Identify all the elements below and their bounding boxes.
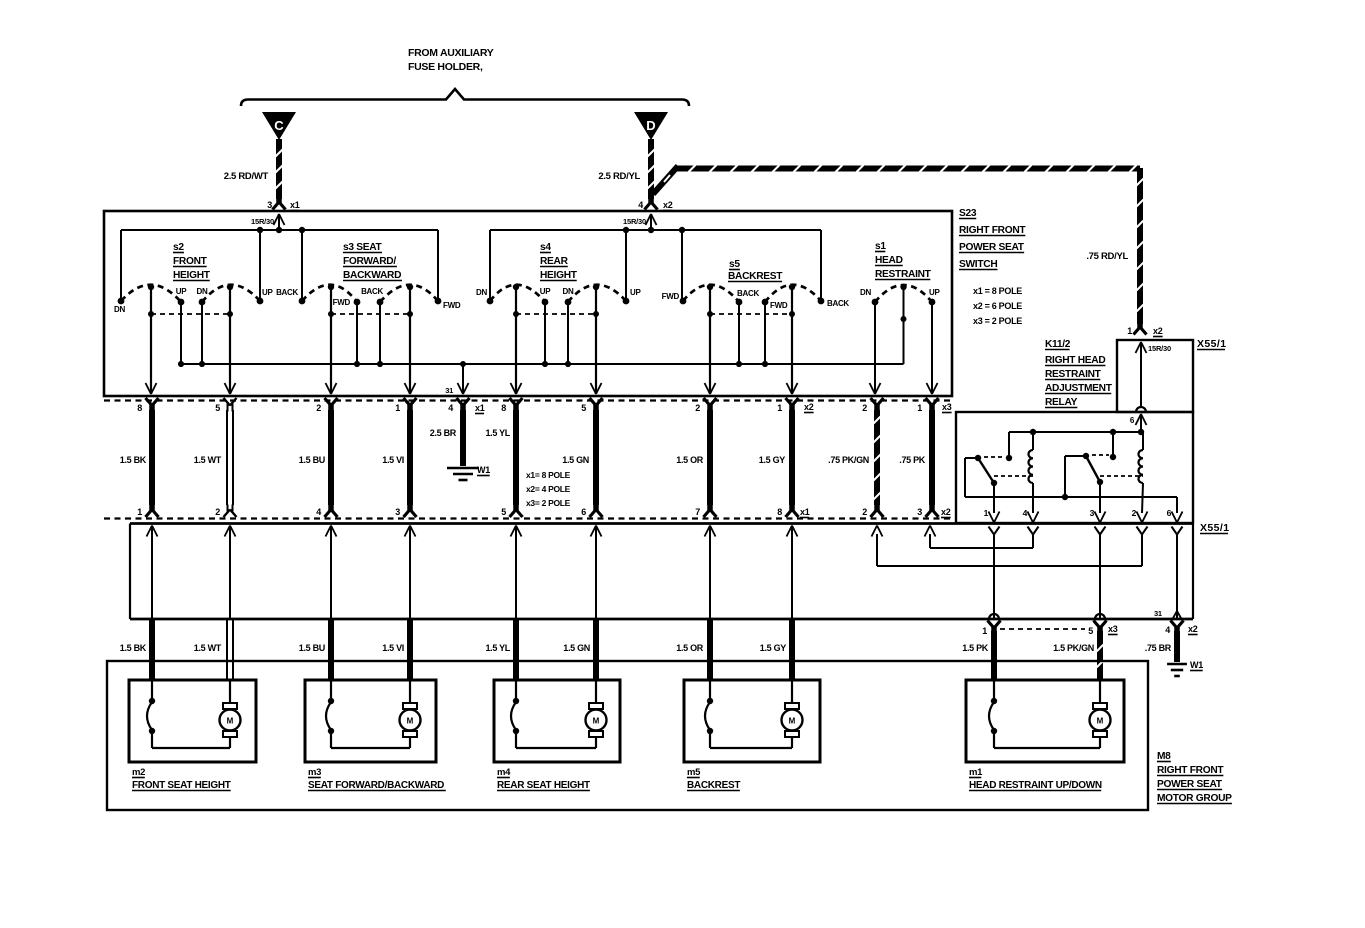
switch block S23 box [104, 211, 952, 396]
svg-text:8: 8 [777, 507, 782, 517]
wire 1.5 BK (lower) [120, 619, 152, 681]
svg-text:m4: m4 [497, 767, 511, 778]
svg-text:BACKREST: BACKREST [687, 780, 740, 791]
bus wire right (D feed) [490, 227, 821, 302]
svg-text:HEIGHT: HEIGHT [540, 270, 578, 281]
wire 1.5 VI [382, 410, 410, 505]
wire 1.5 PK/GN (lower) [1053, 631, 1103, 681]
feed arrow 15R/30 (C) [251, 214, 285, 230]
relay coil 2 [1139, 432, 1144, 513]
svg-text:2: 2 [215, 507, 220, 517]
relay contact K2 (right) [1062, 432, 1143, 513]
svg-text:C: C [274, 118, 284, 133]
motor m5 (backrest) with breaker [684, 680, 820, 791]
svg-text:1: 1 [984, 508, 989, 518]
wire .75 PK [899, 410, 932, 505]
bus wire left (C feed) [121, 227, 438, 302]
wire 1.5 GY [759, 410, 792, 505]
label X55/1 (band) [1200, 522, 1229, 534]
relay common rail to pin 6 [965, 497, 1177, 513]
svg-text:X55/1: X55/1 [1200, 522, 1229, 534]
svg-text:15R/30: 15R/30 [251, 217, 274, 226]
svg-text:M: M [407, 717, 414, 726]
svg-text:RESTRAINT: RESTRAINT [1045, 369, 1102, 380]
connector X55/1 band box [130, 524, 1193, 620]
svg-text:x2: x2 [663, 200, 673, 210]
connector pins 1 5 4 (motor side) [982, 621, 1197, 637]
wire 1.5 BU (lower) [299, 619, 331, 681]
svg-text:3: 3 [917, 507, 922, 517]
svg-text:BACKWARD: BACKWARD [343, 270, 401, 281]
svg-text:x1 = 8 POLE: x1 = 8 POLE [973, 286, 1022, 296]
svg-text:UP: UP [176, 287, 187, 296]
svg-text:1.5 PK/GN: 1.5 PK/GN [1053, 643, 1094, 653]
svg-text:REAR SEAT HEIGHT: REAR SEAT HEIGHT [497, 780, 590, 791]
svg-text:2: 2 [1132, 508, 1137, 518]
svg-text:1.5 BK: 1.5 BK [120, 455, 147, 465]
svg-text:BACK: BACK [827, 299, 849, 308]
svg-text:s4: s4 [540, 242, 551, 253]
connector arches at band bottom [989, 614, 1105, 619]
svg-text:.75 PK/GN: .75 PK/GN [828, 455, 869, 465]
relay internal feed rail [1009, 429, 1144, 435]
connector pin 4 x2 (D feed) [638, 197, 672, 211]
svg-text:FWD: FWD [443, 301, 461, 310]
svg-text:BACK: BACK [361, 287, 383, 296]
svg-text:M: M [789, 717, 796, 726]
wire .75 PK/GN [828, 410, 880, 505]
wire relay pin 3 to motor [1095, 527, 1106, 620]
svg-text:2.5 RD/YL: 2.5 RD/YL [598, 171, 640, 182]
svg-text:FWD: FWD [770, 301, 788, 310]
svg-text:.75 RD/YL: .75 RD/YL [1086, 251, 1128, 262]
svg-text:x2 = 6 POLE: x2 = 6 POLE [973, 301, 1022, 311]
svg-text:x2: x2 [1153, 326, 1163, 336]
svg-text:POWER SEAT: POWER SEAT [959, 242, 1025, 253]
svg-text:8: 8 [137, 403, 142, 413]
svg-text:8: 8 [501, 403, 506, 413]
svg-text:SWITCH: SWITCH [959, 259, 997, 270]
label: from auxiliary fuse holder [408, 47, 494, 73]
svg-text:m2: m2 [132, 767, 145, 778]
svg-text:.75 PK: .75 PK [899, 455, 926, 465]
svg-text:1.5 VI: 1.5 VI [382, 643, 404, 653]
wire 2.5 RD/WT [224, 139, 283, 199]
wire 1.5 PK (lower) [962, 631, 994, 681]
relay coil 1 [1029, 432, 1034, 513]
svg-text:DN: DN [114, 305, 125, 314]
motor m4 (rear seat height) with breaker [494, 680, 620, 791]
wire relay pin 1 to seat harness [989, 527, 1000, 620]
svg-text:FORWARD/: FORWARD/ [343, 256, 396, 267]
svg-text:4: 4 [448, 403, 453, 413]
svg-text:1.5 GY: 1.5 GY [760, 643, 787, 653]
connector forks row 2 with pin numbers [137, 505, 950, 518]
relay bottom pins 1 4 3 2 6 [984, 508, 1183, 523]
wire 1.5 YL (lower) [485, 619, 516, 681]
fuse tap C [262, 112, 296, 140]
svg-text:.75 BR: .75 BR [1145, 643, 1172, 653]
svg-text:2.5 BR: 2.5 BR [430, 428, 457, 438]
svg-text:4: 4 [316, 507, 321, 517]
svg-text:1.5 YL: 1.5 YL [485, 428, 510, 438]
svg-text:x2= 4 POLE: x2= 4 POLE [526, 484, 571, 494]
svg-text:M: M [1097, 717, 1104, 726]
svg-text:5: 5 [1088, 626, 1093, 636]
svg-text:DN: DN [860, 288, 871, 297]
svg-text:4: 4 [1023, 508, 1028, 518]
switch s1 HEAD RESTRAINT [860, 241, 940, 394]
fuse tap D [634, 112, 668, 140]
svg-text:1: 1 [395, 403, 400, 413]
svg-text:3: 3 [395, 507, 400, 517]
relay feed wire 15R/30 [1130, 342, 1171, 432]
svg-text:RELAY: RELAY [1045, 397, 1078, 408]
svg-text:DN: DN [563, 287, 574, 296]
svg-text:RESTRAINT: RESTRAINT [875, 269, 932, 280]
svg-text:1: 1 [1127, 326, 1132, 336]
svg-text:1.5 BK: 1.5 BK [120, 643, 147, 653]
svg-text:FROM AUXILIARY: FROM AUXILIARY [408, 47, 494, 59]
wire 2.5 RD/YL [598, 139, 654, 199]
svg-text:s5: s5 [729, 259, 740, 270]
svg-text:x1: x1 [475, 403, 485, 413]
svg-text:1.5 BU: 1.5 BU [299, 643, 325, 653]
svg-text:1.5 OR: 1.5 OR [676, 455, 704, 465]
pass-through wires in X55/1 band [147, 526, 798, 620]
svg-text:M: M [227, 717, 234, 726]
svg-text:1.5 WT: 1.5 WT [194, 643, 222, 653]
svg-text:UP: UP [929, 288, 940, 297]
svg-text:x1: x1 [290, 200, 300, 210]
svg-text:2: 2 [862, 507, 867, 517]
wire 1.5 WT [194, 410, 233, 505]
wire relay pin 4 jog to .75 PK [925, 526, 1039, 549]
svg-text:D: D [646, 118, 655, 133]
svg-text:x3: x3 [942, 402, 952, 412]
svg-text:3: 3 [267, 200, 272, 210]
svg-text:MOTOR GROUP: MOTOR GROUP [1157, 793, 1232, 804]
svg-text:15R/30: 15R/30 [623, 217, 646, 226]
connector pin 3 x1 (C feed) [267, 197, 299, 211]
svg-text:m5: m5 [687, 767, 701, 778]
svg-text:5: 5 [215, 403, 220, 413]
svg-text:1.5 GY: 1.5 GY [759, 455, 786, 465]
svg-text:FRONT: FRONT [173, 256, 208, 267]
wire 1.5 BU [299, 410, 331, 505]
svg-text:x3 = 2 POLE: x3 = 2 POLE [973, 316, 1022, 326]
svg-text:s2: s2 [173, 242, 184, 253]
svg-text:x1= 8 POLE: x1= 8 POLE [526, 470, 571, 480]
svg-text:1.5 GN: 1.5 GN [563, 643, 590, 653]
ground W1 (switch) [447, 465, 490, 480]
svg-text:DN: DN [476, 288, 487, 297]
svg-text:W1: W1 [1190, 660, 1203, 670]
wire 1.5 GN [562, 410, 596, 505]
relay contact K1 (left) [965, 432, 1033, 513]
wire relay pin 2 jog to .75 PK/GN [872, 526, 1148, 567]
svg-text:5: 5 [501, 507, 506, 517]
svg-text:POWER SEAT: POWER SEAT [1157, 779, 1223, 790]
svg-text:K11/2: K11/2 [1045, 339, 1071, 350]
svg-text:2: 2 [862, 403, 867, 413]
wire .75 RD/YL branch [653, 165, 1144, 324]
svg-text:1.5 VI: 1.5 VI [382, 455, 404, 465]
wire 1.5 VI (lower) [382, 619, 410, 681]
wire .75 BR (lower) [1145, 631, 1177, 662]
collector (ground return) wire inside S23 [178, 361, 904, 395]
svg-text:1: 1 [917, 403, 922, 413]
svg-text:S23: S23 [959, 208, 977, 219]
svg-text:BACK: BACK [276, 288, 298, 297]
connector pole notes (harness) [526, 470, 571, 508]
svg-text:s1: s1 [875, 241, 886, 252]
wire 1.5 YL [485, 410, 516, 505]
wire 1.5 OR [676, 410, 710, 505]
switch s4 REAR HEIGHT [476, 242, 641, 394]
wire relay pin 6 to ground [1154, 527, 1183, 620]
svg-text:5: 5 [581, 403, 586, 413]
svg-text:3: 3 [1090, 508, 1095, 518]
relay K11/2 box [956, 412, 1193, 523]
svg-text:1: 1 [777, 403, 782, 413]
svg-text:1.5 YL: 1.5 YL [485, 643, 510, 653]
svg-text:RIGHT FRONT: RIGHT FRONT [1157, 765, 1224, 776]
relay connector housing box [1117, 340, 1193, 412]
svg-text:FWD: FWD [333, 298, 351, 307]
svg-text:x1: x1 [800, 507, 810, 517]
svg-text:BACK: BACK [737, 289, 759, 298]
svg-text:31: 31 [445, 386, 453, 395]
svg-text:x3: x3 [1108, 624, 1118, 634]
svg-text:x2: x2 [804, 402, 814, 412]
wire 1.5 WT (lower) [194, 619, 233, 681]
motor m3 (seat forward/backward) with breaker [305, 680, 446, 791]
label S23 pole notes [973, 286, 1022, 326]
svg-text:2: 2 [695, 403, 700, 413]
svg-text:UP: UP [262, 288, 273, 297]
motor m1 (head restraint) with breaker [966, 680, 1124, 791]
svg-text:31: 31 [1154, 609, 1162, 618]
svg-text:BACKREST: BACKREST [728, 271, 783, 282]
svg-text:2.5 RD/WT: 2.5 RD/WT [224, 171, 269, 182]
svg-text:M8: M8 [1157, 751, 1171, 762]
brace from auxiliary fuse holder [241, 89, 689, 106]
svg-text:m3: m3 [308, 767, 321, 778]
svg-text:s3 SEAT: s3 SEAT [343, 242, 383, 253]
svg-text:2: 2 [316, 403, 321, 413]
ground W1 (motor side) [1167, 660, 1203, 676]
svg-text:1.5 GN: 1.5 GN [562, 455, 589, 465]
svg-text:6: 6 [581, 507, 586, 517]
svg-text:UP: UP [540, 287, 551, 296]
svg-text:HEIGHT: HEIGHT [173, 270, 211, 281]
svg-text:1: 1 [982, 626, 987, 636]
switch s3 SEAT FORWARD/BACKWARD [276, 242, 461, 394]
switch s5 BACKREST [662, 259, 850, 394]
wire 1.5 GY (lower) [760, 619, 792, 681]
svg-text:x2: x2 [941, 507, 951, 517]
svg-text:W1: W1 [477, 465, 490, 475]
svg-text:m1: m1 [969, 767, 983, 778]
svg-text:SEAT FORWARD/BACKWARD: SEAT FORWARD/BACKWARD [308, 780, 444, 791]
wire 2.5 BR to ground [430, 410, 463, 466]
svg-text:1.5 PK: 1.5 PK [962, 643, 989, 653]
connector pin 1 x2 (relay feed) [1127, 322, 1162, 337]
svg-text:4: 4 [1165, 625, 1170, 635]
svg-text:1.5 WT: 1.5 WT [194, 455, 222, 465]
svg-text:7: 7 [695, 507, 700, 517]
svg-text:FUSE HOLDER,: FUSE HOLDER, [408, 61, 483, 73]
switch s2 FRONT HEIGHT [114, 242, 273, 394]
relay K11/2 labels [1045, 339, 1113, 408]
motor group outer box [107, 661, 1148, 810]
svg-text:6: 6 [1167, 508, 1172, 518]
svg-text:x3= 2 POLE: x3= 2 POLE [526, 498, 571, 508]
feed arrow 15R/30 (D) [623, 214, 657, 230]
svg-text:1.5 BU: 1.5 BU [299, 455, 325, 465]
connector forks row 1 with pin numbers [137, 398, 951, 414]
svg-text:REAR: REAR [540, 256, 569, 267]
svg-text:15R/30: 15R/30 [1148, 344, 1171, 353]
svg-text:ADJUSTMENT: ADJUSTMENT [1045, 383, 1113, 394]
svg-text:1: 1 [137, 507, 142, 517]
svg-text:x2: x2 [1188, 624, 1198, 634]
svg-text:HEAD RESTRAINT UP/DOWN: HEAD RESTRAINT UP/DOWN [969, 780, 1102, 791]
wire 1.5 BK [120, 410, 152, 505]
connector dashed line (switch side) [104, 399, 952, 401]
svg-text:UP: UP [630, 288, 641, 297]
motor m2 (front seat height) with breaker [129, 680, 256, 791]
svg-text:4: 4 [638, 200, 643, 210]
svg-text:FWD: FWD [662, 292, 680, 301]
svg-text:RIGHT FRONT: RIGHT FRONT [959, 225, 1026, 236]
svg-text:DN: DN [197, 287, 208, 296]
svg-text:RIGHT HEAD: RIGHT HEAD [1045, 355, 1105, 366]
svg-text:X55/1: X55/1 [1197, 338, 1226, 350]
wire 1.5 GN (lower) [563, 619, 596, 681]
svg-text:M: M [593, 717, 600, 726]
svg-text:1.5 OR: 1.5 OR [676, 643, 704, 653]
wire 1.5 OR (lower) [676, 619, 710, 681]
connector dashed line (harness bottom) [104, 517, 952, 519]
svg-text:FRONT SEAT HEIGHT: FRONT SEAT HEIGHT [132, 780, 231, 791]
svg-text:HEAD: HEAD [875, 255, 903, 266]
label S23 RIGHT FRONT POWER SEAT SWITCH [959, 208, 1026, 270]
label X55/1 (relay top) [1197, 338, 1226, 350]
label M8 RIGHT FRONT POWER SEAT MOTOR GROUP [1157, 751, 1232, 804]
